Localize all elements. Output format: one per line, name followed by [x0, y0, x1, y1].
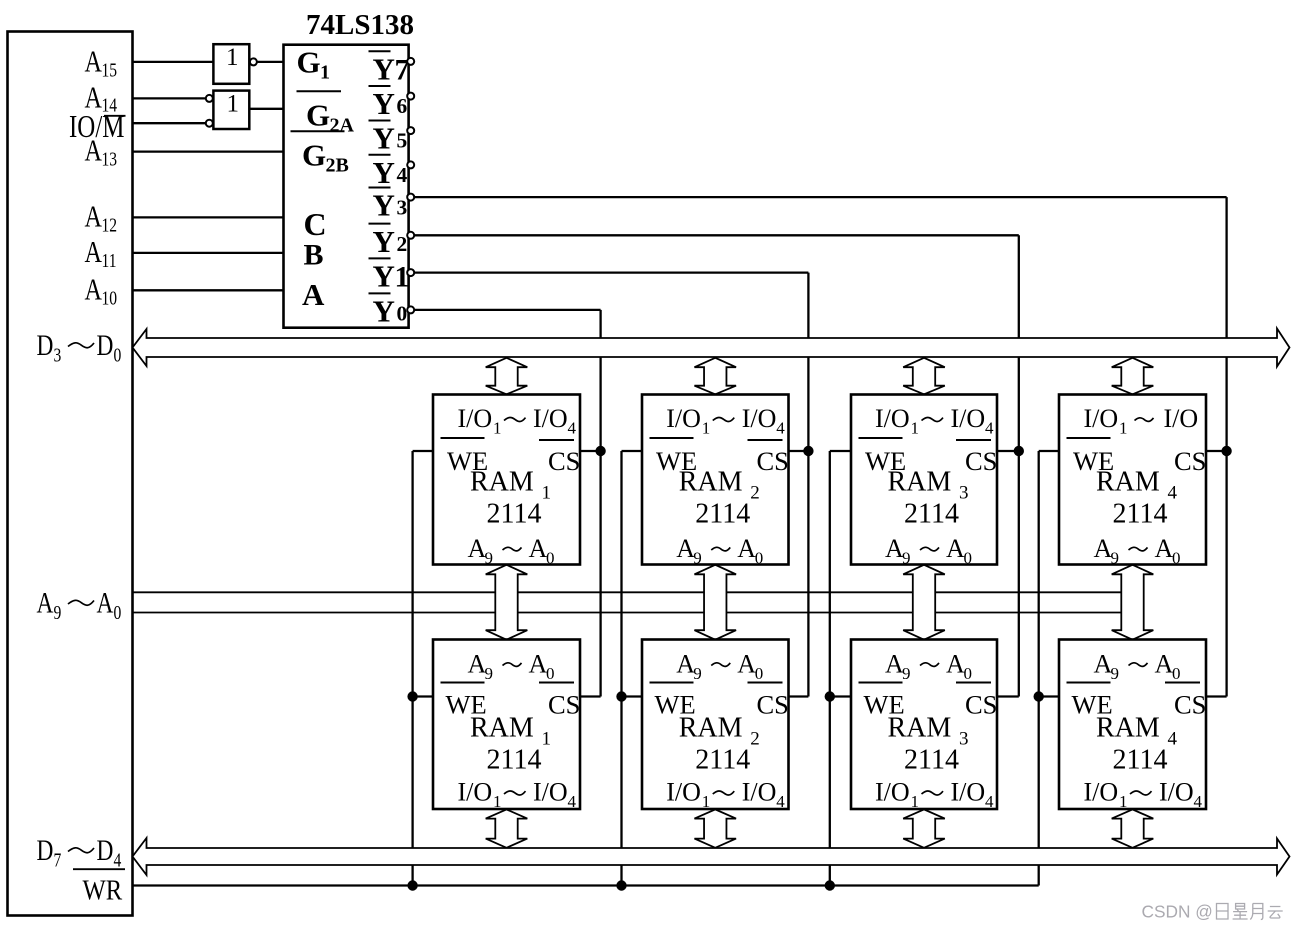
- wire Y1 vertical to CS: [807, 273, 809, 697]
- label A11: [85, 235, 117, 271]
- wire CS lower RAM4: [1206, 695, 1227, 697]
- svg-text:0: 0: [1172, 664, 1181, 683]
- pin label C: [304, 206, 327, 242]
- svg-text:2114: 2114: [695, 499, 750, 530]
- I/O bus arrow RAM1 bottom to D7 bus: [486, 809, 528, 847]
- wire Y0 vertical to CS: [599, 310, 601, 697]
- svg-text:I/O: I/O: [1084, 404, 1119, 433]
- junction dot Y0 / RAM1 CS: [595, 446, 605, 456]
- wire CS lower RAM3: [997, 695, 1019, 697]
- pin label Y7 with overline: [369, 51, 410, 86]
- svg-text:CS: CS: [1174, 690, 1206, 720]
- wire CS upper RAM3: [997, 450, 1019, 452]
- address bus arrow to RAM2 pair: [694, 565, 736, 640]
- svg-text:4: 4: [1168, 729, 1178, 750]
- svg-text:A: A: [85, 134, 102, 169]
- svg-text:I/O: I/O: [458, 404, 493, 433]
- label A10: [85, 273, 118, 309]
- junction dot WE lower RAM4: [1034, 691, 1044, 701]
- svg-text:A: A: [85, 235, 102, 270]
- svg-text:9: 9: [54, 601, 62, 623]
- wire WE vertical column 2: [620, 451, 622, 886]
- svg-text:5: 5: [397, 129, 408, 153]
- svg-text:RAM: RAM: [679, 713, 743, 744]
- output pin bubble Y2: [407, 232, 414, 239]
- svg-text:A: A: [529, 650, 548, 679]
- I/O bus arrow RAM4 bottom to D7 bus: [1112, 809, 1154, 847]
- svg-text:3: 3: [397, 196, 408, 220]
- I/O bus arrow RAM2 bottom to D7 bus: [694, 809, 736, 847]
- wire A14 to inverter U2: [133, 97, 206, 99]
- output pin bubble Y6: [407, 93, 414, 100]
- wire CS upper RAM2: [789, 450, 809, 452]
- svg-text:D: D: [37, 328, 54, 361]
- address bus A9~A0 lines: [133, 592, 1122, 612]
- svg-text:I/O: I/O: [1084, 778, 1119, 807]
- wire A13 to G2B: [133, 150, 284, 152]
- svg-text:1: 1: [493, 792, 502, 811]
- wire Y0 horizontal: [414, 309, 600, 311]
- svg-text:I/O: I/O: [875, 404, 910, 433]
- svg-text:Y: Y: [373, 121, 395, 156]
- svg-text:1: 1: [1119, 419, 1128, 438]
- wire Y1 horizontal: [414, 271, 808, 273]
- svg-text:2: 2: [750, 483, 760, 504]
- svg-text:A: A: [529, 534, 548, 563]
- svg-text:1: 1: [226, 44, 239, 71]
- svg-text:I/O: I/O: [533, 404, 568, 433]
- svg-text:2114: 2114: [487, 745, 542, 776]
- output pin bubble Y1: [407, 269, 414, 276]
- label IO/M with overline: [69, 109, 126, 145]
- pin label Y1 with overline: [369, 258, 410, 293]
- data bus D7~D4 double arrow: [133, 838, 1290, 875]
- pin label Y6 with overline: [369, 86, 408, 121]
- svg-text:Y: Y: [373, 86, 395, 121]
- svg-text:1: 1: [320, 62, 330, 84]
- pin label A: [302, 277, 325, 312]
- junction dot Y2 / RAM3 CS: [1014, 446, 1024, 456]
- wire WE vertical column 3: [829, 451, 831, 886]
- svg-text:9: 9: [902, 549, 911, 568]
- I/O bus arrow RAM3 bottom to D7 bus: [903, 809, 945, 847]
- wire WE upper RAM1: [413, 450, 433, 452]
- svg-text:CSDN @: CSDN @: [1142, 902, 1213, 922]
- svg-text:0: 0: [546, 664, 555, 683]
- RAM2 2114 (lower, D7-D4 nibble): [642, 640, 789, 812]
- label D3~D0: [37, 328, 122, 366]
- svg-text:CS: CS: [965, 690, 997, 720]
- svg-text:A: A: [302, 277, 325, 312]
- svg-text:4: 4: [985, 419, 994, 438]
- svg-text:B: B: [304, 239, 324, 272]
- wire WE lower RAM2: [622, 695, 643, 697]
- wire WE vertical column 4: [1038, 451, 1040, 886]
- svg-text:CS: CS: [1174, 446, 1206, 476]
- svg-text:D: D: [97, 328, 114, 361]
- junction dot WE lower RAM3: [825, 691, 835, 701]
- svg-text:9: 9: [1111, 549, 1120, 568]
- wire CS lower RAM1: [580, 695, 601, 697]
- svg-text:I/O: I/O: [666, 778, 701, 807]
- svg-text:I/O: I/O: [951, 778, 986, 807]
- svg-text:G: G: [306, 98, 330, 133]
- data bus D3~D0 double arrow: [133, 329, 1290, 367]
- pin label G2B with overline: [291, 131, 349, 176]
- wire A11 to B: [133, 252, 284, 254]
- wire U1 to G1: [257, 61, 284, 63]
- svg-text:I/O: I/O: [742, 404, 777, 433]
- svg-text:4: 4: [568, 792, 577, 811]
- svg-text:13: 13: [102, 148, 118, 170]
- svg-text:0: 0: [1172, 549, 1181, 568]
- wire IO/M to inverter U2: [133, 122, 206, 124]
- svg-text:Y: Y: [373, 52, 395, 87]
- svg-text:2114: 2114: [904, 499, 959, 530]
- svg-text:0: 0: [114, 344, 122, 366]
- wire A15 to inverter U1: [133, 61, 214, 63]
- svg-text:1: 1: [542, 483, 552, 504]
- junction dot WR column 3: [825, 880, 835, 890]
- output pin bubble Y0: [407, 306, 414, 313]
- svg-text:2114: 2114: [1113, 745, 1168, 776]
- svg-text:A: A: [85, 45, 102, 80]
- svg-text:4: 4: [397, 163, 408, 187]
- svg-text:9: 9: [693, 664, 702, 683]
- svg-text:RAM: RAM: [1096, 713, 1160, 744]
- pin label Y3 with overline: [369, 188, 408, 223]
- svg-text:RAM: RAM: [470, 467, 534, 498]
- label A12: [85, 200, 118, 236]
- label D7~D4: [37, 833, 122, 871]
- svg-text:D: D: [97, 833, 114, 866]
- wire WE lower RAM1: [413, 695, 433, 697]
- svg-text:1: 1: [911, 419, 920, 438]
- junction dot WR column 1: [407, 880, 417, 890]
- svg-text:A: A: [737, 650, 756, 679]
- svg-text:CS: CS: [548, 446, 580, 476]
- decoder U3 74LS138 box: [284, 45, 409, 328]
- svg-text:RAM: RAM: [1096, 467, 1160, 498]
- svg-text:0: 0: [755, 664, 764, 683]
- svg-text:RAM: RAM: [679, 467, 743, 498]
- wire WE vertical column 1: [411, 451, 413, 886]
- svg-text:CS: CS: [965, 446, 997, 476]
- svg-text:7: 7: [54, 849, 62, 871]
- inverter U2 input bubble A14: [206, 95, 213, 102]
- svg-text:1: 1: [493, 419, 502, 438]
- RAM2 2114 (upper, D3-D0 nibble): [642, 395, 789, 568]
- wire CS upper RAM4: [1206, 450, 1227, 452]
- inverter U1 box: [213, 44, 249, 84]
- svg-text:A: A: [1155, 534, 1174, 563]
- svg-text:9: 9: [902, 664, 911, 683]
- svg-text:A: A: [946, 650, 965, 679]
- svg-text:Y: Y: [373, 259, 395, 294]
- svg-text:I/O: I/O: [458, 778, 493, 807]
- svg-text:7: 7: [395, 54, 410, 87]
- RAM3 2114 (upper, D3-D0 nibble): [851, 395, 997, 568]
- svg-text:9: 9: [485, 549, 494, 568]
- svg-text:CS: CS: [757, 446, 789, 476]
- svg-text:1: 1: [911, 792, 920, 811]
- address bus arrow to RAM3 pair: [903, 565, 945, 640]
- svg-text:Y: Y: [373, 155, 395, 190]
- svg-text:Y: Y: [373, 224, 395, 259]
- watermark CSDN: [1142, 902, 1283, 922]
- inverter U2 box: [213, 91, 249, 129]
- output pin bubble Y4: [407, 161, 414, 168]
- svg-text:A: A: [946, 534, 965, 563]
- svg-text:WR: WR: [83, 874, 123, 906]
- svg-text:RAM: RAM: [888, 713, 952, 744]
- svg-text:1: 1: [395, 261, 410, 294]
- pin label Y5 with overline: [369, 121, 408, 156]
- wire WE upper RAM2: [622, 450, 643, 452]
- svg-text:1: 1: [227, 91, 240, 118]
- svg-text:A: A: [37, 586, 54, 619]
- I/O bus arrow D3 bus to RAM3 top: [903, 358, 945, 395]
- junction dot WE lower RAM2: [616, 691, 626, 701]
- svg-text:1: 1: [702, 792, 711, 811]
- svg-text:2114: 2114: [487, 499, 542, 530]
- pin label B: [304, 239, 324, 272]
- wire WE upper RAM4: [1039, 450, 1059, 452]
- junction dot WE lower RAM1: [407, 691, 417, 701]
- I/O bus arrow D3 bus to RAM2 top: [694, 358, 736, 395]
- svg-text:2: 2: [397, 232, 408, 256]
- svg-text:3: 3: [959, 729, 969, 750]
- svg-text:74LS138: 74LS138: [306, 9, 414, 41]
- svg-text:4: 4: [985, 792, 994, 811]
- svg-text:11: 11: [102, 249, 117, 271]
- svg-text:I/O: I/O: [1164, 404, 1199, 433]
- svg-text:Y: Y: [373, 294, 395, 329]
- svg-text:4: 4: [776, 792, 785, 811]
- svg-text:A: A: [737, 534, 756, 563]
- address bus arrow to RAM1 pair: [486, 565, 528, 640]
- svg-text:4: 4: [114, 849, 122, 871]
- svg-text:I/O: I/O: [951, 404, 986, 433]
- label A14: [85, 81, 118, 116]
- wire WR: [133, 884, 1039, 886]
- I/O bus arrow D3 bus to RAM1 top: [486, 358, 528, 395]
- svg-text:12: 12: [102, 214, 118, 236]
- label A13: [85, 134, 118, 170]
- wire Y3 horizontal: [414, 196, 1227, 198]
- svg-text:1: 1: [1119, 792, 1128, 811]
- svg-text:0: 0: [114, 601, 122, 623]
- pin label Y0 with overline: [369, 293, 408, 328]
- wire CS lower RAM2: [789, 695, 809, 697]
- pin label G2A with overline: [297, 91, 355, 136]
- decoder 74LS138 title: [306, 9, 414, 41]
- svg-text:4: 4: [776, 419, 785, 438]
- svg-text:C: C: [304, 206, 327, 242]
- wire Y2 vertical to CS: [1018, 235, 1020, 696]
- svg-text:2114: 2114: [695, 745, 750, 776]
- svg-text:2: 2: [750, 729, 760, 750]
- svg-text:4: 4: [1168, 483, 1178, 504]
- label A15: [85, 45, 118, 81]
- svg-text:A: A: [85, 273, 102, 308]
- svg-text:A: A: [97, 586, 114, 619]
- svg-text:D: D: [37, 833, 54, 866]
- svg-text:0: 0: [964, 549, 973, 568]
- pin label Y2 with overline: [369, 224, 408, 259]
- RAM3 2114 (lower, D7-D4 nibble): [851, 640, 997, 812]
- output pin bubble Y7: [407, 58, 414, 65]
- svg-text:3: 3: [54, 344, 62, 366]
- svg-text:A: A: [85, 200, 102, 235]
- svg-text:I/O: I/O: [533, 778, 568, 807]
- svg-text:6: 6: [397, 94, 408, 118]
- label WR with overline: [73, 869, 125, 906]
- junction dot Y3 / RAM4 CS: [1221, 446, 1231, 456]
- svg-text:1: 1: [542, 729, 552, 750]
- svg-text:9: 9: [693, 549, 702, 568]
- svg-text:RAM: RAM: [888, 467, 952, 498]
- RAM1 2114 (lower, D7-D4 nibble): [433, 640, 580, 812]
- pin label G1: [297, 45, 331, 84]
- svg-text:G: G: [297, 45, 321, 80]
- wire Y2 horizontal: [414, 234, 1019, 236]
- wire A12 to C: [133, 216, 284, 218]
- svg-text:9: 9: [485, 664, 494, 683]
- svg-text:I/O: I/O: [875, 778, 910, 807]
- svg-text:CS: CS: [548, 690, 580, 720]
- wire Y3 vertical to CS: [1225, 197, 1227, 696]
- wire A10 to A: [133, 289, 284, 291]
- inverter U1 output bubble: [250, 58, 257, 65]
- svg-text:I/O: I/O: [1159, 778, 1194, 807]
- svg-text:Y: Y: [373, 188, 395, 223]
- svg-text:1: 1: [702, 419, 711, 438]
- output pin bubble Y3: [407, 194, 414, 201]
- address bus arrow to RAM4 pair: [1112, 565, 1154, 640]
- svg-text:I/O: I/O: [742, 778, 777, 807]
- output pin bubble Y5: [407, 127, 414, 134]
- svg-text:3: 3: [959, 483, 969, 504]
- RAM1 2114 (upper, D3-D0 nibble): [433, 395, 580, 568]
- svg-text:2114: 2114: [904, 745, 959, 776]
- pin label Y4 with overline: [369, 155, 408, 190]
- wire WE upper RAM3: [830, 450, 851, 452]
- wire U2 to G2A: [249, 108, 283, 110]
- svg-text:A: A: [1155, 650, 1174, 679]
- junction dot Y1 / RAM2 CS: [803, 446, 813, 456]
- svg-text:0: 0: [755, 549, 764, 568]
- inverter U2 input bubble IO/M: [206, 120, 213, 127]
- RAM4 2114 (upper, D3-D0 nibble): [1059, 395, 1206, 568]
- wire WE lower RAM4: [1039, 695, 1059, 697]
- RAM4 2114 (lower, D7-D4 nibble): [1059, 640, 1206, 812]
- svg-text:2A: 2A: [330, 115, 355, 137]
- svg-text:9: 9: [1111, 664, 1120, 683]
- svg-text:2B: 2B: [326, 155, 349, 177]
- svg-text:2114: 2114: [1113, 499, 1168, 530]
- svg-text:0: 0: [397, 302, 408, 326]
- svg-text:4: 4: [1194, 792, 1203, 811]
- svg-text:4: 4: [568, 419, 577, 438]
- svg-text:I/O: I/O: [666, 404, 701, 433]
- wire WE lower RAM3: [830, 695, 851, 697]
- I/O bus arrow D3 bus to RAM4 top: [1112, 358, 1154, 395]
- svg-text:CS: CS: [757, 690, 789, 720]
- CPU bus interface box: [8, 32, 133, 916]
- svg-text:G: G: [302, 138, 326, 173]
- label A9~A0: [37, 586, 122, 624]
- svg-text:10: 10: [102, 287, 118, 309]
- junction dot WR column 2: [616, 880, 626, 890]
- svg-text:15: 15: [102, 59, 118, 81]
- svg-text:0: 0: [546, 549, 555, 568]
- svg-text:RAM: RAM: [470, 713, 534, 744]
- wire CS upper RAM1: [580, 450, 601, 452]
- svg-text:0: 0: [964, 664, 973, 683]
